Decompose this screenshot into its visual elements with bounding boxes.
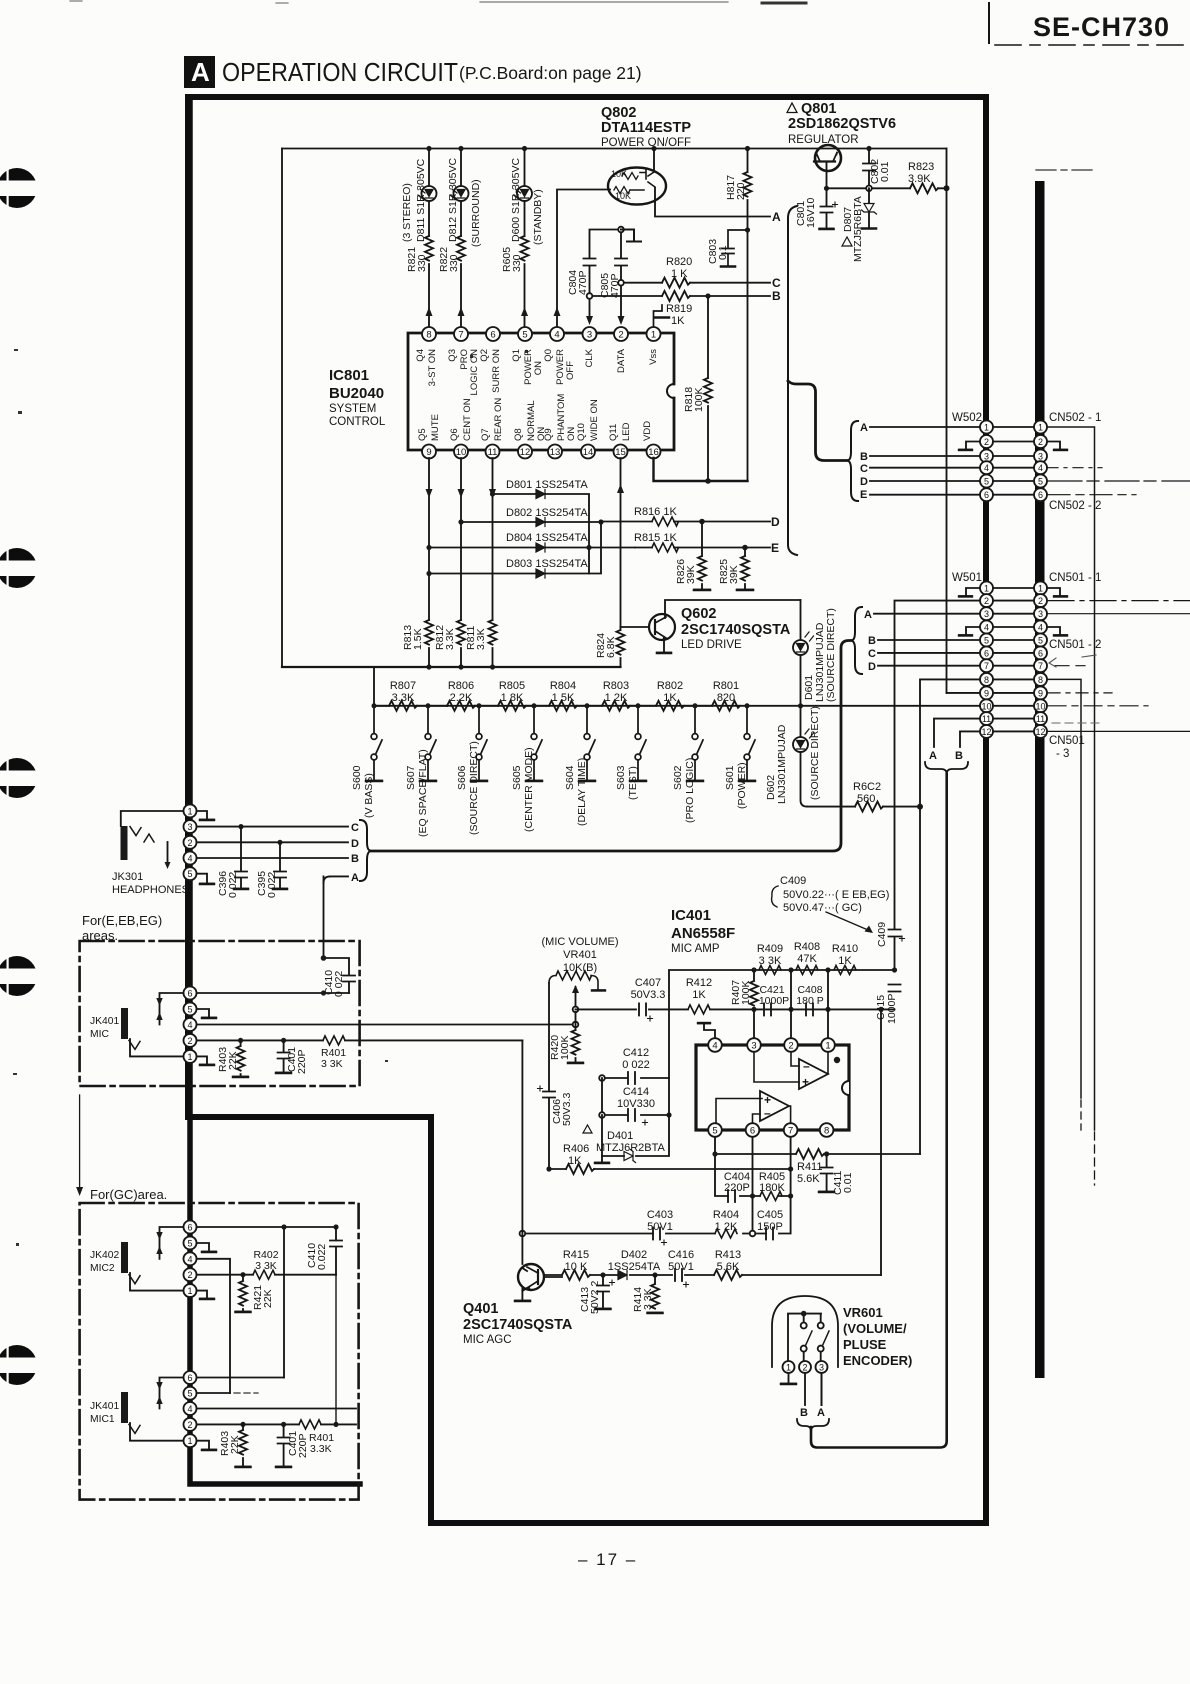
svg-text:2: 2 — [1038, 596, 1043, 606]
MIC1 pin circles — [184, 1371, 197, 1447]
nodes on feedback bus — [788, 967, 793, 972]
pin4 ground — [698, 1024, 715, 1039]
svg-text:4: 4 — [187, 854, 192, 864]
svg-text:A: A — [817, 1407, 825, 1419]
svg-text:C412: C412 — [623, 1047, 649, 1059]
svg-text:– 17 –: – 17 – — [578, 1550, 637, 1569]
row A stub — [324, 876, 349, 958]
svg-text:E: E — [860, 489, 867, 501]
svg-text:2: 2 — [618, 330, 623, 341]
resistor R804 1.5K — [549, 701, 602, 711]
row to R823 — [827, 187, 947, 189]
svg-text:1 2K: 1 2K — [715, 1221, 738, 1233]
bottom pin circles 9..16 — [422, 445, 661, 459]
svg-text:1 5K: 1 5K — [552, 692, 575, 704]
resistor R803 1.2K — [602, 701, 656, 711]
diode D802 1SS254TA — [461, 521, 601, 523]
capacitor C403 50V1 — [653, 1228, 660, 1240]
resistor R413 5.6K — [714, 1270, 742, 1280]
svg-text:5: 5 — [187, 1238, 192, 1248]
svg-text:C407: C407 — [635, 977, 661, 989]
svg-text:10K: 10K — [611, 169, 627, 179]
svg-text:22K: 22K — [229, 1435, 241, 1454]
resistor R812 3.3K — [457, 620, 465, 667]
LED D600 column wire — [524, 149, 526, 328]
svg-text:–: – — [803, 1059, 810, 1073]
svg-text:BU2040: BU2040 — [329, 385, 384, 402]
svg-text:820: 820 — [717, 692, 735, 704]
svg-text:VR401: VR401 — [563, 949, 597, 961]
capacitor C413 50V2.2 — [596, 1275, 611, 1309]
svg-text:LED: LED — [621, 422, 632, 441]
svg-text:R805: R805 — [499, 680, 525, 692]
CN501-10 dashes — [1048, 705, 1148, 707]
svg-text:R404: R404 — [713, 1209, 739, 1221]
W502 ground pin2 — [959, 442, 980, 450]
svg-text:(SOURCE DIRECT): (SOURCE DIRECT) — [825, 608, 837, 702]
resistor R401 3.3K — [323, 1036, 345, 1045]
node pin6/down link — [281, 1224, 286, 1229]
node R403 — [238, 1038, 243, 1043]
arrow into pin7 — [458, 307, 465, 316]
external connector bar CN — [1035, 181, 1045, 1378]
svg-text:HEADPHONES: HEADPHONES — [112, 884, 189, 896]
svg-text:470P: 470P — [577, 270, 589, 295]
JK301 pin1 wire + jack — [121, 811, 184, 826]
svg-text:SE-CH730: SE-CH730 — [1033, 12, 1170, 42]
svg-text:50V3.3: 50V3.3 — [631, 989, 666, 1001]
switch S603 (TEST) — [630, 706, 646, 781]
LED D811 — [422, 186, 437, 201]
svg-text:Q401: Q401 — [463, 1301, 498, 1317]
svg-text:3-ST ON: 3-ST ON — [427, 349, 438, 386]
LED D601 — [793, 640, 808, 655]
svg-text:R823: R823 — [908, 161, 934, 173]
svg-text:C414: C414 — [623, 1086, 649, 1098]
svg-text:(SURROUND): (SURROUND) — [470, 179, 482, 247]
svg-text:(STANDBY): (STANDBY) — [532, 189, 544, 245]
C403/R404/C405 row — [522, 1196, 790, 1234]
IC U801 BU2040 body — [408, 333, 674, 450]
svg-text:(P.C.Board:on page 21): (P.C.Board:on page 21) — [459, 63, 642, 83]
labels Q802 — [601, 105, 691, 149]
transistor Q802 (digital, with internal 10K resistors) — [608, 168, 666, 205]
svg-text:C: C — [351, 822, 359, 834]
svg-text:Q2: Q2 — [479, 349, 490, 362]
node C401b — [281, 1422, 286, 1427]
row D to W502-5 — [870, 480, 980, 482]
svg-text:CN502 - 1: CN502 - 1 — [1049, 412, 1101, 424]
svg-text:–: – — [764, 1106, 771, 1120]
CN501-2 dash-dot right — [1048, 600, 1190, 602]
W501 ground pin4 — [959, 627, 980, 635]
svg-text:8: 8 — [426, 330, 431, 341]
switch array — [351, 703, 755, 837]
VR601 rotary encoder body — [772, 1296, 838, 1367]
svg-text:Q9: Q9 — [543, 428, 554, 441]
pin9 column — [428, 458, 430, 620]
svg-text:(V BASS): (V BASS) — [363, 773, 375, 818]
op-amp B triangle — [760, 1091, 789, 1121]
row C to W501-6 — [878, 652, 980, 654]
resistor R821 330 — [425, 236, 433, 261]
node R602/pin8 wire — [917, 804, 923, 810]
row D to W501-7 — [878, 665, 980, 667]
C404/R405 row — [715, 1154, 791, 1196]
svg-text:47K: 47K — [797, 953, 817, 965]
svg-text:7: 7 — [1038, 661, 1043, 671]
A/B underbrace to encoder — [925, 762, 968, 774]
long encoder wire down right side — [811, 774, 947, 1448]
op-amp internal wiring — [716, 1052, 828, 1123]
svg-text:D402: D402 — [621, 1249, 647, 1261]
svg-text:8: 8 — [1038, 675, 1043, 685]
svg-text:C: C — [772, 276, 781, 290]
capacitor C407 50V3.3 — [639, 1003, 646, 1015]
svg-text:MUTE: MUTE — [430, 414, 441, 441]
svg-text:3.9K: 3.9K — [908, 173, 931, 185]
title block A — [184, 56, 215, 88]
svg-text:Q8: Q8 — [513, 428, 524, 441]
svg-text:6.8K: 6.8K — [605, 636, 617, 658]
svg-text:B: B — [800, 1407, 808, 1419]
svg-text:560: 560 — [857, 793, 875, 805]
svg-text:1K: 1K — [663, 692, 677, 704]
svg-text:5: 5 — [712, 1126, 717, 1137]
svg-text:12: 12 — [520, 447, 531, 458]
W501-CN501 joining rows 1..12 — [993, 588, 1034, 731]
IC401 top pin circles — [708, 1038, 835, 1052]
svg-text:VR601: VR601 — [843, 1305, 883, 1320]
node C/C396 — [238, 824, 243, 829]
svg-text:9: 9 — [984, 688, 989, 698]
svg-text:R411: R411 — [797, 1161, 822, 1173]
svg-text:B: B — [955, 750, 963, 762]
IC401 bottom pin circles — [708, 1123, 833, 1137]
JK301 pin circles — [184, 804, 197, 880]
svg-text:6: 6 — [187, 989, 192, 999]
svg-text:+: + — [764, 1093, 771, 1107]
svg-text:D803 1SS254TA: D803 1SS254TA — [506, 558, 588, 570]
resistor R404 1.2K — [715, 1229, 737, 1238]
svg-text:10: 10 — [1035, 701, 1045, 711]
svg-text:+: + — [802, 1075, 809, 1089]
svg-text:R408: R408 — [794, 941, 820, 953]
svg-text:2SC1740SQSTA: 2SC1740SQSTA — [463, 1317, 573, 1333]
svg-text:9: 9 — [1038, 688, 1043, 698]
svg-text:5: 5 — [984, 477, 989, 487]
svg-text:12: 12 — [981, 727, 991, 737]
svg-text:1.5K: 1.5K — [412, 628, 424, 650]
punch mark 1 — [0, 168, 45, 208]
resistor R421 22K — [236, 1275, 251, 1312]
resistor R420 100K — [568, 1030, 583, 1063]
arrows into pin3/pin2 — [586, 316, 625, 325]
svg-text:Q10: Q10 — [576, 423, 587, 441]
node A-line/pin6 row — [321, 990, 326, 995]
svg-text:CN501: CN501 — [1049, 735, 1085, 747]
svg-text:6: 6 — [1038, 490, 1043, 500]
svg-text:(EQ SPACE/FLAT): (EQ SPACE/FLAT) — [417, 749, 429, 837]
svg-text:3: 3 — [819, 1363, 824, 1373]
svg-text:R802: R802 — [657, 680, 683, 692]
svg-text:220: 220 — [735, 182, 747, 200]
svg-text:D: D — [771, 515, 780, 529]
svg-text:D812 S1R-305VC: D812 S1R-305VC — [447, 158, 459, 242]
resistor R822 330 — [457, 236, 465, 261]
svg-text:5: 5 — [1038, 636, 1043, 646]
JK401 pin4 row out to VR401 node — [196, 1024, 576, 1026]
JK401 pin5 ground — [196, 1009, 216, 1018]
svg-text:ENCODER): ENCODER) — [843, 1353, 912, 1368]
CN501 pin circles 1..12 — [1034, 582, 1047, 738]
punch mark 3 — [0, 758, 45, 798]
svg-text:2: 2 — [788, 1041, 793, 1052]
svg-text:(MIC VOLUME): (MIC VOLUME) — [542, 936, 619, 948]
svg-text:6: 6 — [490, 330, 495, 341]
AGC row: R415, D402, C416, R413 — [544, 1274, 881, 1276]
JK301 contact ^ — [144, 834, 154, 842]
zener D807 MTZJ5R6BTA — [862, 188, 876, 228]
svg-text:A: A — [351, 872, 359, 884]
svg-text:3 3K: 3 3K — [255, 1260, 277, 1272]
resistor R403 22K (GC) — [236, 1424, 251, 1466]
capacitor C396 0.022 — [234, 827, 248, 889]
fan bracket A..E at W502 — [847, 421, 858, 501]
svg-text:B: B — [351, 853, 359, 865]
signal row: C407, R412 — [576, 1008, 895, 1010]
svg-text:0.022: 0.022 — [316, 1244, 328, 1270]
JK401 MIC1 jack body — [121, 1392, 128, 1423]
svg-text:2: 2 — [802, 1363, 807, 1373]
VR401 mic volume pot — [542, 936, 619, 974]
JK402 pin circles — [184, 1221, 197, 1298]
diode D402 1SS254TA — [618, 1271, 627, 1280]
node rail/D812 — [458, 146, 463, 151]
W502 label — [952, 412, 1101, 512]
svg-text:S604: S604 — [564, 765, 576, 790]
svg-text:R820: R820 — [666, 256, 692, 268]
node C401 — [281, 1038, 286, 1043]
LED D812 column wire — [460, 149, 462, 328]
svg-text:8: 8 — [824, 1126, 829, 1137]
resistor R414 3.3K — [648, 1275, 663, 1313]
svg-text:C409: C409 — [780, 875, 806, 887]
svg-text:330: 330 — [511, 254, 523, 272]
mic line riser — [521, 1040, 523, 1264]
svg-text:4: 4 — [554, 330, 559, 341]
W501 pin circles 1..12 — [980, 582, 993, 738]
svg-text:0 022: 0 022 — [227, 872, 239, 898]
svg-text:50V3.3: 50V3.3 — [561, 1093, 573, 1126]
JK301 pin1 ground — [196, 811, 214, 820]
svg-text:R410: R410 — [832, 943, 858, 955]
resistor R823 3.9K — [910, 183, 938, 193]
row pin2 to D — [196, 841, 348, 843]
arrow into pin5 — [521, 307, 528, 316]
JK402 pin5 ground — [196, 1243, 216, 1252]
trunk from JK301 bracket up to W501 fan — [371, 641, 851, 852]
JK301 contact V — [130, 827, 141, 836]
bundle bracket A,C,B,D,E (left collector) — [788, 206, 797, 555]
JK402 labels — [90, 1250, 119, 1274]
resistor R806 2.2K — [447, 705, 498, 707]
resistor R824 6.8K — [617, 627, 625, 667]
svg-text:A: A — [772, 210, 781, 224]
svg-text:2SC1740SQSTA: 2SC1740SQSTA — [681, 622, 791, 638]
svg-text:3: 3 — [751, 1041, 756, 1052]
title text — [191, 12, 1170, 1569]
C805 top node circle — [618, 227, 624, 233]
header model dashed underline — [995, 44, 1190, 46]
top pin circles 8..1 — [422, 327, 661, 341]
svg-text:Q4: Q4 — [415, 349, 426, 362]
svg-text:50V1: 50V1 — [647, 1221, 673, 1233]
row A to W502-1 — [870, 426, 980, 428]
resistor R816 1K — [601, 521, 770, 523]
capacitor C803 0.1 — [721, 230, 748, 267]
svg-text:3: 3 — [984, 609, 989, 619]
CN502 ground pin2 — [1048, 442, 1067, 450]
left vertical bus bar through jacks — [190, 99, 360, 1484]
pin15 column with arrow — [620, 458, 622, 627]
svg-text:10 K: 10 K — [565, 1261, 588, 1273]
svg-text:10K: 10K — [615, 191, 631, 201]
svg-text:5: 5 — [187, 869, 192, 879]
svg-text:MIC AMP: MIC AMP — [671, 943, 720, 955]
JK402 pin1 ground — [196, 1291, 214, 1299]
svg-text:39K: 39K — [685, 565, 697, 584]
svg-text:A: A — [864, 609, 872, 621]
punch mark 2 — [0, 548, 45, 588]
MIC1 pin4 row to box edge — [196, 1408, 356, 1410]
svg-text:(POWER): (POWER) — [736, 762, 748, 809]
svg-text:For(E,EB,EG): For(E,EB,EG) — [82, 913, 162, 928]
arrow into pin8 — [426, 307, 433, 316]
svg-text:C403: C403 — [647, 1209, 673, 1221]
svg-text:WIDE ON: WIDE ON — [589, 399, 600, 441]
resistor R817 220 — [747, 149, 749, 482]
C409 pointer arrow — [826, 912, 868, 930]
svg-text:4: 4 — [712, 1041, 717, 1052]
svg-text:2: 2 — [187, 838, 192, 848]
svg-text:ON: ON — [533, 361, 544, 375]
capacitor C802 0.01 — [863, 149, 875, 189]
A/B underbrace at encoder — [797, 1419, 829, 1431]
svg-text:1: 1 — [984, 584, 989, 594]
node D — [699, 519, 705, 525]
svg-text:2: 2 — [984, 437, 989, 447]
svg-text:1: 1 — [1038, 423, 1043, 433]
svg-text:R807: R807 — [390, 680, 416, 692]
left rail drop wire — [281, 149, 283, 668]
svg-text:1000P: 1000P — [886, 994, 898, 1024]
capacitor C412 0.022 — [602, 1072, 669, 1084]
svg-text:D: D — [860, 476, 868, 488]
svg-text:2: 2 — [187, 1270, 192, 1280]
svg-text:S606: S606 — [456, 765, 468, 790]
svg-text:AN6558F: AN6558F — [671, 925, 735, 942]
ground at pin1 — [654, 305, 670, 327]
svg-text:D: D — [351, 838, 359, 850]
svg-text:330: 330 — [416, 254, 428, 272]
JK401 MIC jack body — [121, 1008, 128, 1039]
JK402 contact V — [129, 1275, 140, 1284]
CN501-8 wire right and down — [1048, 679, 1081, 1098]
svg-text:R819: R819 — [666, 303, 692, 315]
resistor R415 10K — [562, 1270, 590, 1280]
resistor R405 180K — [760, 1192, 782, 1201]
W501 ground pin1 — [959, 588, 980, 596]
svg-text:(SOURCE DIRECT): (SOURCE DIRECT) — [468, 741, 480, 835]
svg-text:3.3K: 3.3K — [475, 628, 487, 650]
svg-text:220P: 220P — [724, 1182, 750, 1194]
JK401 labels — [90, 1016, 119, 1040]
svg-text:3.3K: 3.3K — [392, 692, 415, 704]
svg-text:0.01: 0.01 — [842, 1172, 854, 1193]
svg-text:16: 16 — [648, 447, 659, 458]
svg-text:JK301: JK301 — [112, 871, 143, 883]
pin11 column — [492, 458, 494, 620]
svg-text:D802 1SS254TA: D802 1SS254TA — [506, 507, 588, 519]
transistor Q602 LED drive — [621, 626, 650, 628]
svg-text:R816 1K: R816 1K — [634, 506, 677, 518]
svg-text:S603: S603 — [615, 765, 627, 790]
svg-text:4: 4 — [1038, 463, 1043, 473]
LED column labels — [401, 158, 544, 272]
switch S607 (EQ SPACE/FLAT) — [420, 706, 436, 781]
node R403b — [240, 1422, 245, 1427]
svg-text:For(GC)area.: For(GC)area. — [90, 1187, 167, 1202]
svg-text:1: 1 — [187, 806, 192, 816]
svg-text:7: 7 — [458, 330, 463, 341]
LED D600 — [517, 186, 532, 201]
svg-text:S605: S605 — [511, 765, 523, 790]
svg-text:1 K: 1 K — [671, 268, 688, 280]
IC801 labels — [329, 367, 386, 428]
svg-text:(PRO LOGIC): (PRO LOGIC) — [684, 758, 696, 823]
svg-text:R6C2: R6C2 — [853, 781, 881, 793]
CN501 ground pin4 — [1048, 627, 1067, 635]
svg-text:0 022: 0 022 — [266, 872, 278, 898]
CN502-5 long line — [1048, 480, 1190, 482]
svg-text:JK401: JK401 — [90, 1016, 119, 1027]
W501-11 wire to A — [934, 719, 980, 747]
pin7 riser down — [790, 1137, 792, 1196]
row A to W501-3 — [874, 613, 980, 615]
For(GC) leader arrow — [79, 1095, 81, 1188]
svg-text:6: 6 — [187, 1373, 192, 1383]
svg-text:0.01: 0.01 — [879, 161, 891, 182]
svg-text:LNJ301MPUJAD: LNJ301MPUJAD — [776, 724, 788, 804]
svg-text:16V10: 16V10 — [805, 197, 817, 228]
resistor R813 1.5K — [425, 620, 433, 667]
svg-text:B: B — [868, 635, 876, 647]
W501-2 wire to C409 — [895, 601, 981, 929]
svg-text:2SD1862QSTV6: 2SD1862QSTV6 — [788, 116, 896, 132]
resistor R811 3.3K — [489, 620, 497, 667]
svg-text:2: 2 — [187, 1036, 192, 1046]
svg-text:22K: 22K — [262, 1289, 274, 1308]
node R401/C410 link — [333, 1422, 338, 1427]
svg-text:E: E — [771, 541, 779, 555]
resistor R402 3.3K — [253, 1270, 275, 1279]
capacitor C410 0.022 — [324, 958, 356, 993]
MIC1 labels — [90, 1401, 119, 1425]
MIC1 pin6 row and left link — [160, 1378, 285, 1409]
switch S605 (CENTER MODE) — [526, 706, 542, 781]
node Q801 base/C801 — [824, 186, 829, 191]
